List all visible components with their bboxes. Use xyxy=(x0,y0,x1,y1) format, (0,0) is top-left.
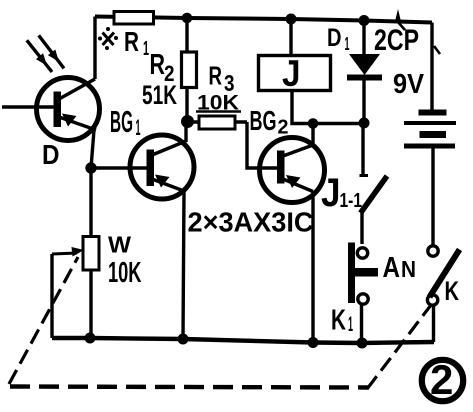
resistor R1 xyxy=(114,12,154,61)
current tick on top rail xyxy=(395,9,405,30)
svg-text:1: 1 xyxy=(348,313,353,336)
svg-text:2: 2 xyxy=(430,356,453,403)
svg-text:D: D xyxy=(42,139,60,170)
panel dashed outline bottom xyxy=(10,387,368,388)
svg-text:N: N xyxy=(401,256,416,282)
wire R3 to BG2 base xyxy=(247,122,278,168)
pushbutton An xyxy=(348,243,416,305)
panel dashed outline left diagonal xyxy=(9,257,78,384)
resistor R3 xyxy=(187,61,247,130)
panel dashed outline right diagonal xyxy=(367,305,431,389)
transistor BG2 xyxy=(250,105,325,203)
svg-text:1-1: 1-1 xyxy=(340,190,363,212)
node BG2 emitter bottom xyxy=(308,337,319,348)
node K1 bottom xyxy=(357,338,368,349)
resistor R2 xyxy=(142,18,197,122)
wire wiper down left xyxy=(50,254,53,338)
svg-text:1: 1 xyxy=(143,38,149,60)
switch K xyxy=(427,246,459,306)
svg-text:J: J xyxy=(321,171,341,215)
svg-text:K: K xyxy=(331,305,346,337)
phototransistor D xyxy=(2,78,100,171)
wire battery feed right side xyxy=(430,23,433,111)
wire BG1 collector up xyxy=(184,122,187,142)
wire BG1 base lead xyxy=(91,166,147,169)
light arrow 1 xyxy=(27,40,52,72)
diode D1 xyxy=(327,21,382,124)
wire BG2 collector up xyxy=(311,124,314,147)
wire BG2 emitter down xyxy=(311,192,314,343)
svg-text:R: R xyxy=(124,26,139,57)
svg-text:2CP: 2CP xyxy=(374,24,419,57)
wire R1 left drop to phototransistor collector xyxy=(93,17,96,80)
wire K1 bottom xyxy=(360,305,363,343)
wire bottom rail xyxy=(52,338,434,343)
transistor BG1 xyxy=(110,104,194,199)
node D1 bottom junction xyxy=(359,118,370,129)
node D1 top junction xyxy=(359,15,370,26)
battery 9V xyxy=(393,68,456,245)
wire D emitter down xyxy=(91,130,94,168)
svg-text:BG: BG xyxy=(110,104,133,139)
node W bottom xyxy=(85,333,96,344)
svg-text:2×3AX3IC: 2×3AX3IC xyxy=(188,207,314,238)
svg-text:A: A xyxy=(383,252,401,284)
svg-text:W: W xyxy=(108,232,131,258)
wire BG1 emitter down xyxy=(183,191,184,339)
wire K bottom xyxy=(432,305,435,342)
svg-text:2: 2 xyxy=(278,117,289,139)
node base junction xyxy=(85,162,96,173)
svg-text:1: 1 xyxy=(345,34,350,54)
svg-text:J: J xyxy=(282,53,301,94)
svg-text:R: R xyxy=(150,49,166,81)
svg-text:K: K xyxy=(445,276,460,306)
node R2 bottom junction xyxy=(181,115,194,128)
light arrow 2 xyxy=(39,35,64,68)
svg-text:9V: 9V xyxy=(393,68,424,99)
svg-text:BG: BG xyxy=(250,105,277,136)
figure number 2 xyxy=(422,356,463,403)
svg-text:51K: 51K xyxy=(142,80,177,110)
relay J xyxy=(259,19,331,94)
wire top rail xyxy=(95,17,432,23)
node BG1 emitter bottom xyxy=(178,334,189,345)
wire W bottom down xyxy=(89,270,92,338)
potentiometer W xyxy=(52,232,142,290)
svg-text:10K: 10K xyxy=(108,257,142,289)
wire junction to W top xyxy=(89,168,92,238)
node BG2 collector junction xyxy=(308,118,319,129)
switch J1-1 xyxy=(321,123,387,244)
svg-text:D: D xyxy=(327,24,342,52)
node R2 top junction xyxy=(182,13,193,24)
svg-text:R: R xyxy=(209,61,223,91)
wire J bottom to mid rail xyxy=(292,90,365,124)
node J top junction xyxy=(286,14,297,25)
current tick on battery wire xyxy=(434,46,440,54)
svg-text:1: 1 xyxy=(136,115,141,140)
asterisk reference mark xyxy=(98,27,118,50)
